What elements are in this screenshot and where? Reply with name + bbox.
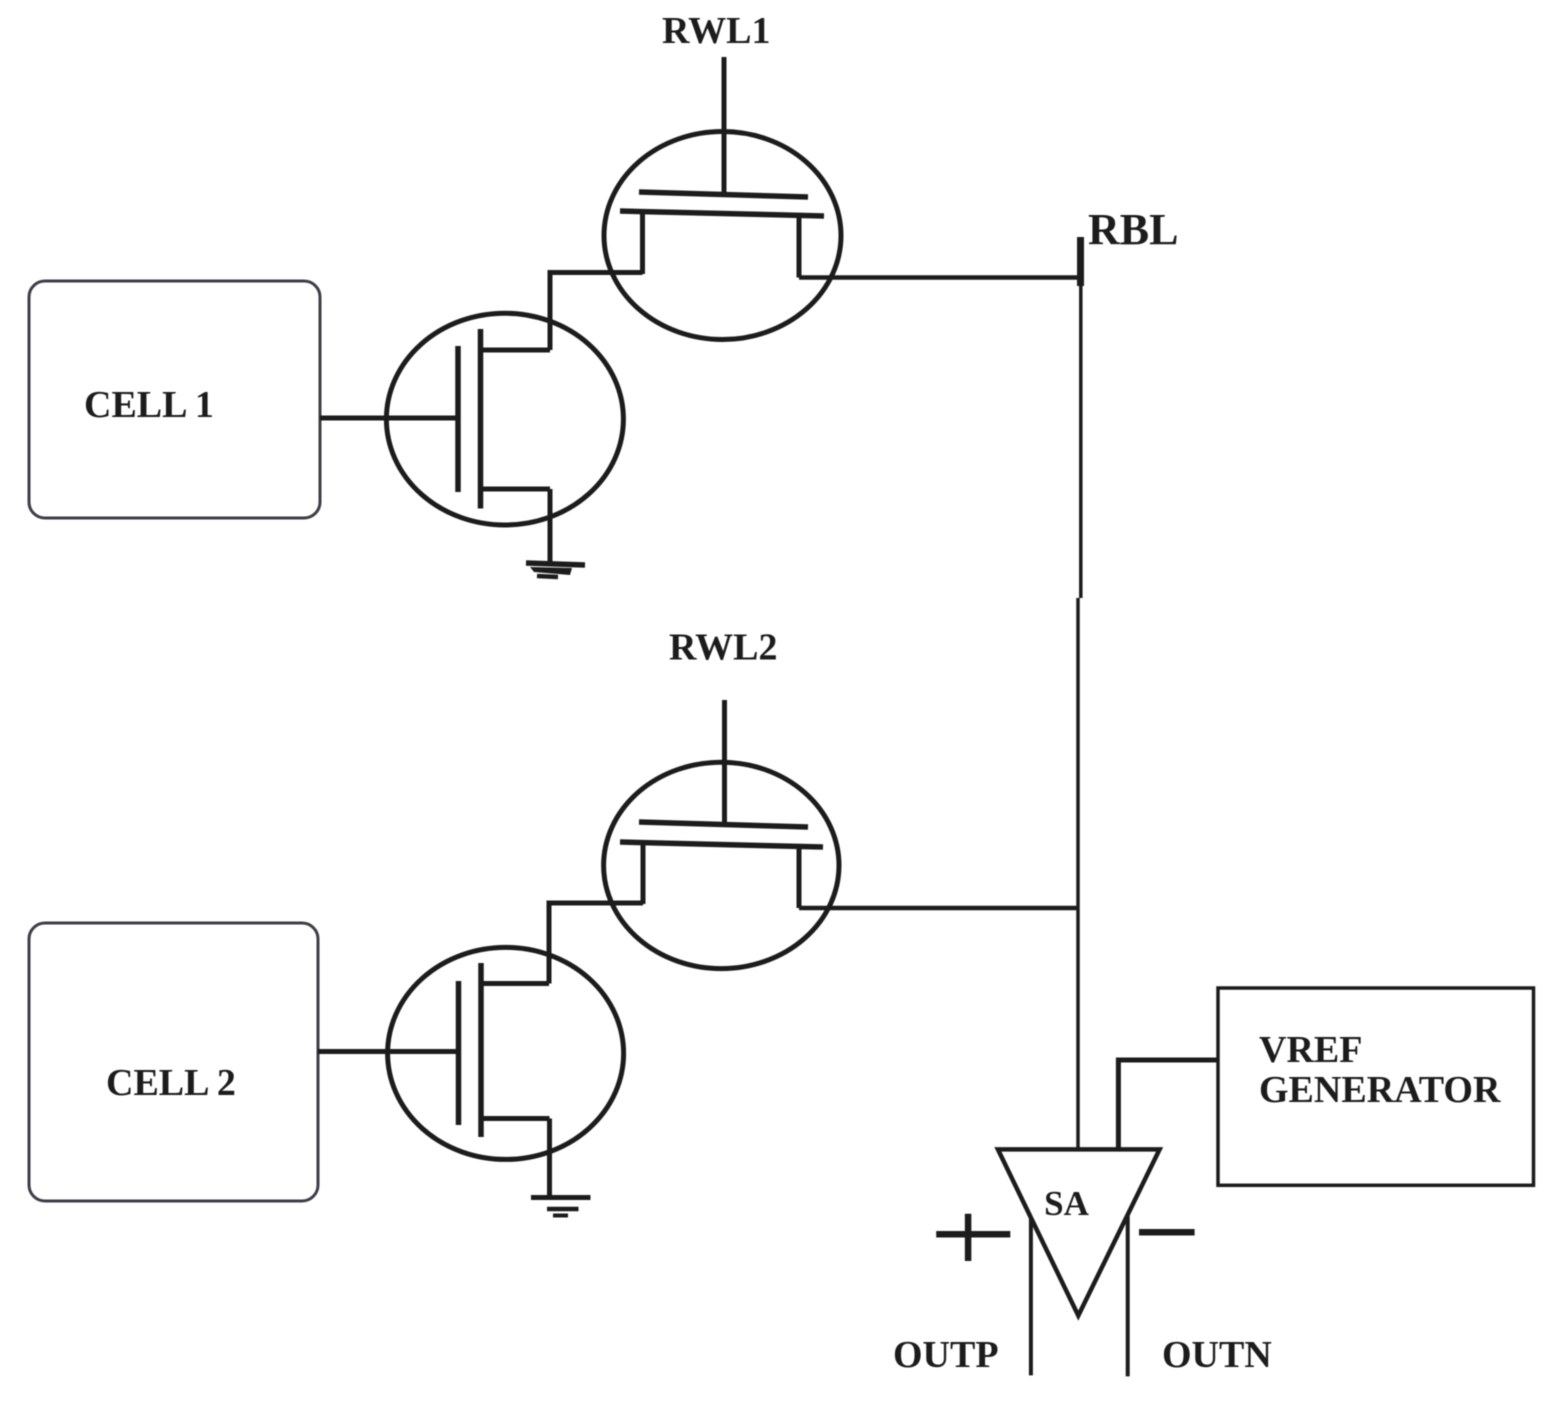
wire CELL2 to M2 gate xyxy=(318,1049,458,1054)
plus sign SA positive output xyxy=(936,1214,1010,1261)
wire M1 drain to RWL1 transistor source xyxy=(550,273,643,351)
wire CELL1 to M1 gate xyxy=(320,416,457,421)
M1 channel bar xyxy=(478,329,484,509)
label RWL1 xyxy=(662,10,770,52)
M4 gate bar xyxy=(639,822,808,827)
transistor M2 (CELL2 read device) body xyxy=(388,947,624,1159)
M1 gate bar xyxy=(455,346,461,492)
svg-text:CELL 2: CELL 2 xyxy=(106,1062,236,1104)
label CELL 1 xyxy=(84,384,214,426)
label OUTP xyxy=(893,1334,999,1376)
svg-text:OUTP: OUTP xyxy=(893,1334,999,1376)
M4 body xyxy=(604,762,839,968)
M4 source stub xyxy=(641,845,646,904)
wire M4 drain to RBL xyxy=(799,906,1078,911)
label RWL2 xyxy=(669,627,777,669)
cell block CELL2 xyxy=(29,923,318,1201)
node RBL tick xyxy=(1077,237,1084,286)
M3 source stub xyxy=(640,214,645,274)
label OUTN xyxy=(1162,1334,1272,1376)
M3 gate bar xyxy=(639,192,808,197)
ground GND2 xyxy=(531,1198,591,1216)
wire M3 drain to RBL xyxy=(799,275,1081,280)
M2 gate bar xyxy=(456,981,462,1125)
svg-text:RBL: RBL xyxy=(1088,205,1178,254)
wire VREF generator to SA input xyxy=(1118,1060,1218,1149)
M4 channel bar xyxy=(620,842,823,847)
M4 drain stub xyxy=(797,846,802,908)
cell block CELL1 xyxy=(29,281,320,518)
M2 drain stub xyxy=(481,981,549,986)
svg-text:OUTN: OUTN xyxy=(1162,1334,1272,1376)
M3 drain stub xyxy=(797,215,802,278)
label SA xyxy=(1044,1184,1089,1223)
M1 drain stub xyxy=(481,348,550,353)
minus sign SA negative output xyxy=(1139,1229,1195,1236)
wire OUTN lead xyxy=(1126,1215,1130,1377)
svg-text:GENERATOR: GENERATOR xyxy=(1259,1069,1501,1111)
M2 channel bar xyxy=(478,963,484,1137)
svg-text:CELL 1: CELL 1 xyxy=(84,384,214,426)
block VREF GENERATOR xyxy=(1218,988,1534,1185)
wire RBL vertical upper xyxy=(1079,286,1083,598)
label RBL xyxy=(1088,205,1178,254)
wire OUTP lead xyxy=(1029,1218,1033,1376)
wire M2 drain to RWL2 transistor source xyxy=(549,903,643,984)
wire M2 source to ground xyxy=(547,1119,552,1197)
M2 source stub xyxy=(481,1116,550,1121)
M3 channel bar xyxy=(620,211,824,216)
label CELL 2 xyxy=(106,1062,236,1104)
sense amplifier SA triangle xyxy=(998,1149,1160,1315)
svg-text:RWL1: RWL1 xyxy=(662,10,770,52)
transistor M3 (RWL1 access) gate lead xyxy=(722,57,727,197)
wire RBL vertical lower xyxy=(1076,598,1080,1149)
wire M1 source to ground xyxy=(548,489,553,566)
M3 body xyxy=(604,132,841,340)
label VREF GENERATOR xyxy=(1259,1029,1501,1111)
svg-text:SA: SA xyxy=(1044,1184,1089,1223)
transistor M4 (RWL2 access) gate lead xyxy=(722,700,727,827)
svg-text:RWL2: RWL2 xyxy=(669,627,777,669)
ground GND1 xyxy=(526,563,585,577)
transistor M1 (CELL1 read device) body xyxy=(386,313,623,525)
svg-text:VREF: VREF xyxy=(1259,1029,1362,1071)
M1 source stub xyxy=(481,487,550,492)
